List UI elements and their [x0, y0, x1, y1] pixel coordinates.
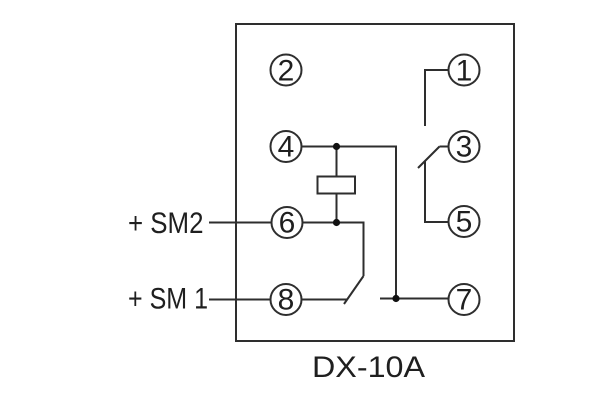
svg-text:1: 1 [456, 55, 473, 88]
coil K [318, 177, 356, 194]
svg-text:5: 5 [456, 206, 473, 239]
svg-text:+ SM2: + SM2 [128, 207, 204, 240]
wire terminal 3 stub [440, 146, 449, 148]
terminal circle 8 [271, 284, 302, 315]
junction node on wire 4 [333, 143, 340, 150]
terminal circle 3 [449, 131, 480, 162]
svg-text:6: 6 [279, 207, 296, 240]
terminal circle 7 [449, 284, 480, 315]
svg-text:8: 8 [278, 284, 295, 317]
wire terminal 4 to node then down to node on 7-line [302, 147, 397, 299]
junction node on wire 7 [392, 295, 399, 302]
wire coil top lead [336, 147, 338, 177]
relay case outline [236, 24, 514, 341]
svg-text:+ SM 1: + SM 1 [128, 283, 208, 316]
terminal circle 2 [271, 55, 302, 86]
wire coil bottom lead [336, 194, 338, 223]
terminal circle 1 [449, 55, 480, 86]
junction node on wire 6 [333, 219, 340, 226]
contact blade 3-5 (closed) [418, 147, 440, 169]
terminal circle 5 [449, 206, 480, 237]
wire terminal 7 line [380, 298, 449, 300]
wire terminal 1 fixed contact [425, 70, 449, 126]
wire terminal 6 to node then to contact pivot [303, 223, 364, 277]
wire +SM2 to terminal 6 [209, 222, 271, 224]
wire terminal 5 to blade pivot [425, 161, 449, 222]
wire terminal 8 fixed contact [302, 299, 348, 301]
svg-text:7: 7 [456, 284, 473, 317]
svg-text:3: 3 [456, 131, 473, 164]
svg-text:2: 2 [278, 55, 295, 88]
terminal circle 6 [272, 207, 303, 238]
wire +SM1 to terminal 8 [209, 299, 270, 301]
svg-text:DX-10A: DX-10A [312, 351, 425, 384]
svg-text:4: 4 [278, 131, 295, 164]
terminal circle 4 [271, 131, 302, 162]
contact blade at terminal 8 (open) [344, 276, 364, 304]
